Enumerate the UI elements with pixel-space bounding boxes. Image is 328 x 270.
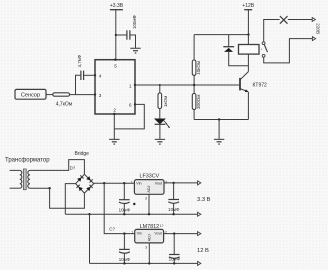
polarity mark C1 [133, 203, 135, 205]
pin 1 dot [134, 84, 136, 86]
svg-text:6: 6 [129, 103, 132, 108]
junction C5 bottom [173, 262, 175, 264]
power +12V symbol [244, 10, 252, 45]
wire U3 output 12V [164, 233, 198, 235]
wire LED to ground [159, 124, 161, 139]
wire stub to ground [218, 120, 220, 140]
lower rail output arrow 12V return [198, 261, 201, 265]
wire relay coil to collector [247, 54, 249, 72]
resistor R3 10кОм body [192, 60, 196, 75]
output arrow 12V [198, 232, 201, 236]
bridge diode low-left [76, 185, 82, 191]
svg-text:220В: 220В [316, 23, 321, 34]
wire to resistor 1кОм [159, 85, 161, 93]
svg-text:Vout: Vout [155, 182, 162, 186]
op-amp U1 (comparator box) [95, 60, 135, 114]
output arrow L 220V [312, 18, 315, 22]
junction cap C5 top [173, 232, 175, 234]
diode D1 (flyback) [223, 47, 234, 52]
svg-text:LF33CV: LF33CV [140, 174, 160, 180]
pin 3 dot [94, 93, 96, 95]
bridge rectifier D3 diamond [76, 174, 94, 193]
junction plus branch [103, 182, 105, 184]
svg-text:3.3 В: 3.3 В [197, 197, 211, 203]
capacitor C2 4,7мФ plates [81, 71, 84, 80]
output arrow 3.3V [198, 181, 201, 185]
svg-text:1?: 1? [160, 224, 164, 228]
wire to capacitor C1 [123, 183, 125, 199]
wire contact top to lamp [264, 20, 280, 42]
wire bridge plus rail [94, 182, 135, 184]
wire +12V rail to 10кОм [194, 34, 248, 36]
ground (near 100мФ) [130, 48, 140, 53]
wire U2 output 3.3V [164, 182, 198, 184]
relay coil K1 [239, 45, 260, 55]
wire to capacitor C3 [123, 234, 125, 250]
pin 4 dot [94, 74, 96, 76]
wire U2 ADJ to ground rail [148, 194, 150, 214]
svg-text:1: 1 [131, 230, 133, 234]
relay contact blade [264, 45, 267, 53]
svg-text:3: 3 [145, 246, 147, 250]
wire resistor to LED [159, 109, 161, 119]
wire contact bottom to output N [264, 39, 313, 63]
svg-text:2: 2 [165, 181, 167, 185]
transistor Q1 KT972 [240, 72, 249, 92]
svg-text:D?: D? [70, 166, 76, 171]
wire U3 ADJ to lower rail [148, 243, 150, 264]
svg-text:12 В: 12 В [197, 248, 209, 254]
junction C3 bottom [123, 262, 125, 264]
svg-text:КТ972: КТ972 [253, 82, 268, 88]
wire secondary bottom [30, 187, 50, 189]
ground (below U1) [109, 139, 119, 144]
svg-text:Vout: Vout [154, 232, 161, 236]
junction C1 bottom [123, 213, 125, 215]
svg-text:2: 2 [113, 108, 116, 113]
LED D2 [154, 119, 166, 125]
capacitor C4 10мФ [168, 200, 179, 204]
bridge diode up-right [86, 176, 92, 182]
LED emission arrows [164, 121, 170, 128]
wire pin 2 to ground [113, 114, 115, 139]
capacitor C1 10мФ [119, 200, 130, 204]
wire resistor to pin 3 [70, 94, 96, 96]
svg-text:10мФ: 10мФ [119, 257, 131, 262]
wire plus branch down to LM7812 input [104, 183, 135, 233]
svg-text:5: 5 [114, 64, 117, 69]
wire capacitor to ground [130, 35, 135, 48]
capacitor C5 10мФ [169, 255, 180, 259]
svg-text:10мФ: 10мФ [119, 207, 131, 212]
resistor R1 4,7кОм body [53, 93, 70, 96]
junction secondary bottom [48, 187, 50, 189]
wire C1 to ground rail [123, 204, 125, 215]
svg-text:4,7кОм: 4,7кОм [56, 101, 73, 107]
svg-text:4: 4 [99, 74, 102, 79]
svg-text:ADJ: ADJ [147, 185, 151, 192]
resistor R2 1кОм body [158, 93, 162, 109]
pin 6 dot [134, 103, 136, 105]
capacitor 100мФ plates [127, 30, 130, 39]
wire emitter rail [194, 119, 248, 121]
svg-text:1: 1 [131, 181, 133, 185]
pin 5 dot [114, 59, 116, 61]
svg-text:1: 1 [129, 83, 132, 88]
wire C4 to ground rail [173, 203, 175, 214]
svg-text:Vin: Vin [136, 182, 141, 186]
svg-text:1кОм: 1кОм [163, 96, 168, 107]
bridge diode low-right [86, 185, 92, 191]
wire to capacitor C4 [173, 183, 175, 200]
bridge diode up-left [77, 175, 83, 181]
svg-text:3: 3 [145, 197, 147, 201]
relay contact top [262, 42, 265, 45]
transformer T1 secondary winding [28, 170, 30, 188]
svg-text:10кОм: 10кОм [196, 61, 201, 75]
junction ground stub [218, 118, 220, 120]
ground (below transistor) [214, 139, 224, 144]
junction C4 bottom [172, 213, 174, 215]
svg-text:LM7812: LM7812 [140, 224, 159, 230]
lamp X (indicator) [280, 16, 288, 24]
wire pin 6 loop to ground net [114, 104, 144, 128]
regulator U2 LF33CV box [134, 180, 164, 195]
svg-text:+12В: +12В [242, 3, 254, 9]
wire bridge minus to ground rail [65, 184, 75, 215]
svg-text:3: 3 [99, 93, 102, 98]
svg-text:2: 2 [165, 230, 167, 234]
svg-text:10мФ: 10мФ [169, 256, 181, 261]
junction rail-link [88, 213, 90, 215]
transformer T1 primary leads [10, 170, 20, 188]
junction node B on base wire [193, 84, 195, 86]
relay actuation dashed link [259, 48, 262, 50]
ground rail output arrow 3.3V return [198, 212, 201, 216]
ground (below LED) [155, 139, 165, 144]
wire secondary top to bridge AC1 [30, 160, 85, 175]
svg-text:4,7мФ: 4,7мФ [77, 54, 82, 67]
svg-text:ADJ: ADJ [147, 234, 151, 241]
wire capacitor to pin 4 [84, 74, 95, 76]
wire sensor to resistor R 4,7кОм [46, 94, 53, 96]
junction cap C4 top [172, 182, 174, 184]
wire to capacitor C5 [173, 234, 175, 255]
wire 300Ом to emitter rail [193, 110, 195, 120]
sensor box Сенсор [15, 89, 46, 99]
wire 10кОм to node B [193, 75, 195, 93]
junction cap C3 top [123, 232, 125, 234]
wire +3.3V to capacitor C-100 tap [116, 34, 127, 36]
svg-text:Трансформатор: Трансформатор [5, 157, 50, 163]
wire +12V rail to resistor 10кОм [193, 35, 195, 60]
power +3.3V symbol [110, 10, 123, 60]
wire C5 to lower rail [173, 258, 175, 263]
relay contact bottom [262, 54, 265, 57]
junction cap C1 top [123, 182, 125, 184]
svg-text:300Ом: 300Ом [196, 95, 201, 109]
svg-text:10мФ: 10мФ [168, 207, 180, 212]
wire emitter down [247, 92, 249, 120]
wire diode tap down [228, 35, 230, 47]
junction U3 ADJ [148, 262, 150, 264]
transformer T1 core [23, 169, 26, 190]
junction U2 ADJ [148, 213, 150, 215]
svg-text:C?: C? [109, 227, 115, 232]
pin 2 dot [113, 113, 115, 115]
capacitor C3 10мФ [119, 249, 130, 253]
wire C3 to lower rail [123, 253, 125, 263]
junction on +3.3V wire [115, 34, 117, 36]
transformer T1 primary winding [20, 170, 22, 188]
svg-text:Vin: Vin [137, 232, 142, 236]
regulator U3 LM7812 box [135, 229, 164, 243]
wire diode anode return [229, 52, 249, 66]
resistor R4 300Ом body [192, 94, 196, 110]
wire secondary bottom to bridge AC2 [50, 188, 85, 208]
wire lower ground rail [90, 262, 198, 264]
svg-text:Сенсор: Сенсор [21, 93, 40, 99]
wire link between ground rails [89, 214, 91, 263]
wire node A up to capacitor 4,7мФ [76, 75, 81, 94]
output arrow N 220V [312, 37, 315, 41]
junction +12V node [247, 33, 249, 35]
svg-text:+3.3В: +3.3В [110, 3, 124, 9]
junction LED branch [159, 84, 161, 86]
wire ground rail [65, 213, 197, 215]
svg-text:Bridge: Bridge [75, 151, 90, 157]
wire lamp to output L [288, 19, 312, 21]
wire pin 1 to transistor base [135, 84, 240, 86]
